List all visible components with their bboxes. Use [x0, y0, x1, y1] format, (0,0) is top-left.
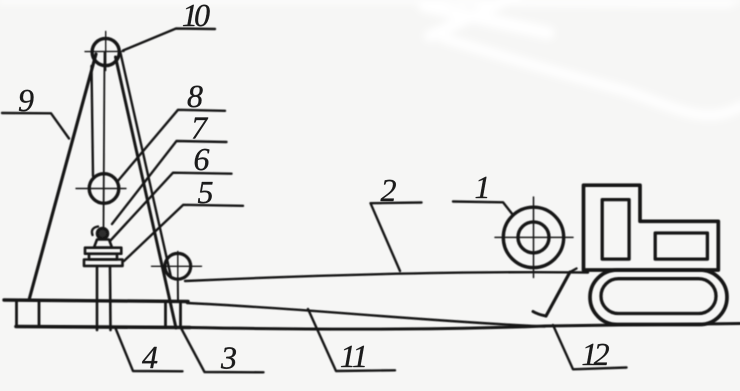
cable 2 (winch pull rope)	[185, 272, 588, 281]
label 8 leader	[117, 110, 225, 182]
label 7 leader	[112, 141, 227, 224]
pulley 3 (base sheave)	[152, 252, 202, 302]
label 4 leader	[115, 327, 183, 371]
base sled frame	[4, 300, 190, 328]
label 1 leader	[453, 202, 513, 216]
mast leg 9 (left leg)	[29, 54, 96, 300]
label 9 text	[19, 90, 34, 112]
anchor 12 (rope clamp at track front)	[533, 269, 577, 317]
label 4 text	[142, 347, 157, 368]
tractor cab window	[602, 200, 629, 260]
label 1 text	[476, 177, 487, 198]
crawler track outer	[590, 270, 727, 325]
wire: hoist cable from pulley 10 down to pulley 3	[121, 53, 172, 277]
tractor cab outline	[584, 185, 719, 270]
label 2 text	[381, 180, 396, 201]
winch drum 1	[495, 197, 573, 278]
hook 6 (ball hook)	[92, 227, 108, 239]
pulley 8 (hammer sheave)	[76, 174, 126, 204]
pile cap 5 (cap block stack)	[84, 240, 123, 266]
label 3 leader	[181, 328, 264, 372]
paper crease highlight A	[0, 0, 740, 115]
label 7 text	[193, 118, 208, 139]
label 6 text	[195, 149, 210, 171]
pulley 10 (head sheave)	[85, 32, 124, 71]
label 5 leader	[124, 205, 243, 261]
label 11 leader	[308, 309, 395, 371]
label 2 leader	[371, 203, 422, 272]
label 10 text	[183, 5, 210, 27]
label 11 text	[341, 346, 365, 367]
label 3 text	[221, 347, 236, 369]
label 5 text	[198, 182, 213, 203]
label 6 leader	[110, 173, 232, 241]
label 9 leader	[2, 113, 69, 139]
label 12 leader	[553, 325, 627, 369]
label 10 leader	[123, 29, 215, 51]
ground line	[190, 324, 740, 330]
wire: hammer cable left fall	[92, 66, 94, 176]
wire: center rope / axis from pulley 10 through pulley 8 to hook	[104, 52, 105, 227]
tractor hood panel	[655, 233, 707, 259]
crawler track inner	[601, 279, 716, 314]
pile 4 (driven post)	[97, 266, 111, 330]
label 12 text	[583, 344, 609, 365]
mast leg (right leg)	[116, 57, 177, 328]
rope 11 (tie-back line)	[187, 303, 545, 327]
label 8 text	[188, 86, 203, 108]
